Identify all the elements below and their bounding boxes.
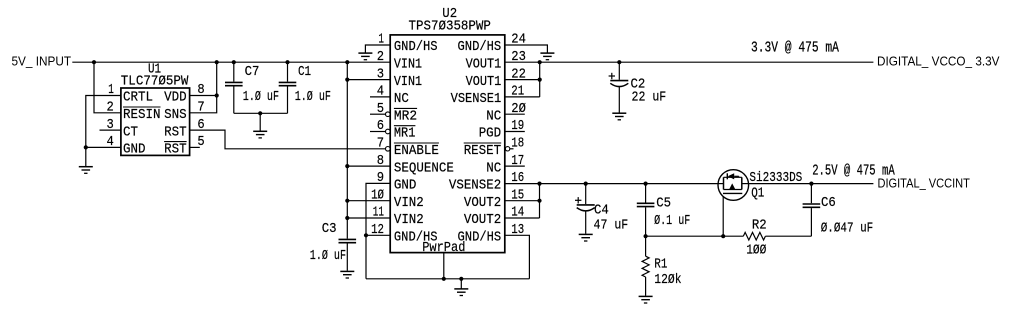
svg-text:PwrPad: PwrPad [422, 241, 465, 256]
svg-text:CT: CT [123, 125, 138, 140]
svg-text:47 uF: 47 uF [594, 218, 629, 233]
svg-text:12Øk: 12Øk [654, 273, 681, 288]
svg-text:VSENSE2: VSENSE2 [449, 179, 501, 194]
svg-text:C3: C3 [322, 222, 337, 237]
svg-text:2Ø: 2Ø [511, 102, 526, 117]
svg-text:NC: NC [486, 109, 501, 124]
svg-text:VOUT2: VOUT2 [464, 213, 501, 228]
svg-text:8: 8 [197, 83, 204, 98]
svg-text:VOUT1: VOUT1 [466, 75, 502, 90]
svg-text:C5: C5 [656, 197, 671, 212]
svg-text:VIN2: VIN2 [394, 213, 424, 228]
svg-text:MR1: MR1 [394, 127, 416, 142]
svg-text:RST: RST [164, 143, 187, 158]
svg-text:5: 5 [377, 102, 384, 117]
svg-text:9: 9 [377, 171, 384, 186]
svg-text:MR2: MR2 [394, 109, 417, 124]
svg-text:C7: C7 [245, 65, 260, 80]
svg-text:21: 21 [511, 85, 524, 100]
svg-text:3: 3 [107, 118, 114, 133]
svg-text:1Ø: 1Ø [371, 188, 384, 203]
svg-text:VDD: VDD [164, 91, 187, 106]
svg-text:TLC77Ø5PW: TLC77Ø5PW [121, 75, 189, 90]
svg-text:18: 18 [511, 137, 524, 152]
svg-text:7: 7 [377, 137, 384, 152]
svg-text:GND/HS: GND/HS [394, 40, 438, 55]
svg-text:C1: C1 [298, 65, 311, 80]
svg-text:C4: C4 [594, 204, 609, 219]
svg-text:Si2333DS: Si2333DS [749, 171, 802, 186]
svg-text:VIN2: VIN2 [394, 196, 424, 211]
svg-text:GND: GND [123, 143, 146, 158]
svg-text:VIN1: VIN1 [394, 75, 422, 90]
svg-text:NC: NC [394, 92, 409, 107]
svg-text:17: 17 [511, 154, 524, 169]
svg-text:2: 2 [107, 101, 114, 116]
svg-text:4: 4 [107, 135, 114, 150]
svg-text:1.Ø uF: 1.Ø uF [243, 90, 279, 105]
svg-text:TPS7Ø358PWP: TPS7Ø358PWP [409, 19, 491, 34]
svg-text:5V_ INPUT: 5V_ INPUT [12, 54, 72, 68]
svg-text:RESET: RESET [464, 144, 502, 159]
svg-text:24: 24 [511, 33, 526, 48]
svg-text:VSENSE1: VSENSE1 [451, 92, 502, 107]
svg-text:R2: R2 [752, 218, 767, 233]
svg-text:1ØØ: 1ØØ [746, 243, 766, 258]
svg-text:1: 1 [108, 83, 114, 98]
svg-text:22 uF: 22 uF [632, 91, 667, 106]
svg-text:14: 14 [511, 206, 524, 221]
svg-text:PGD: PGD [479, 127, 502, 142]
svg-text:12: 12 [371, 223, 384, 238]
svg-text:VIN1: VIN1 [394, 58, 422, 73]
svg-text:19: 19 [511, 119, 524, 134]
svg-text:NC: NC [486, 161, 501, 176]
svg-text:13: 13 [511, 223, 524, 238]
svg-text:11: 11 [373, 206, 384, 221]
svg-text:2.5V @ 475 mA: 2.5V @ 475 mA [812, 163, 895, 180]
svg-text:22: 22 [511, 67, 526, 82]
svg-text:15: 15 [511, 188, 524, 203]
svg-text:SNS: SNS [164, 108, 187, 123]
svg-text:1.Ø uF: 1.Ø uF [295, 90, 331, 105]
svg-text:8: 8 [377, 154, 384, 169]
svg-text:R1: R1 [654, 258, 667, 273]
svg-text:6: 6 [377, 119, 384, 134]
svg-text:1: 1 [378, 33, 384, 48]
svg-text:RESIN: RESIN [123, 108, 161, 123]
svg-text:DIGITAL_ VCCO_ 3.3V: DIGITAL_ VCCO_ 3.3V [877, 54, 1000, 68]
svg-text:C6: C6 [821, 196, 836, 211]
svg-text:7: 7 [197, 101, 204, 116]
svg-text:4: 4 [377, 85, 384, 100]
svg-text:2: 2 [377, 50, 384, 65]
svg-text:VOUT1: VOUT1 [466, 58, 502, 73]
svg-text:5: 5 [197, 135, 204, 150]
svg-text:VOUT2: VOUT2 [464, 196, 501, 211]
svg-text:RST: RST [164, 125, 187, 140]
svg-text:GND: GND [394, 179, 417, 194]
svg-text:16: 16 [511, 171, 524, 186]
svg-text:3: 3 [377, 67, 384, 82]
svg-text:GND/HS: GND/HS [458, 40, 502, 55]
svg-text:3.3V @ 475 mA: 3.3V @ 475 mA [751, 39, 839, 56]
svg-text:SEQUENCE: SEQUENCE [394, 161, 454, 176]
svg-text:1.Ø uF: 1.Ø uF [310, 249, 346, 264]
svg-text:Ø.1 uF: Ø.1 uF [654, 214, 690, 229]
svg-text:CRTL: CRTL [123, 91, 153, 106]
svg-text:23: 23 [511, 50, 526, 65]
svg-text:Ø.Ø47 uF: Ø.Ø47 uF [821, 221, 874, 236]
svg-text:ENABLE: ENABLE [394, 144, 439, 159]
svg-text:6: 6 [197, 118, 204, 133]
svg-text:Q1: Q1 [751, 187, 764, 202]
